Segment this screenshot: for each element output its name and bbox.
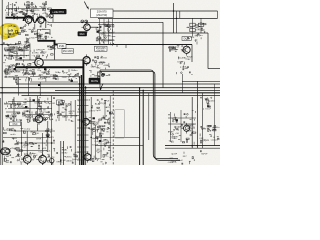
svg-text:72R0: 72R0 (33, 53, 39, 55)
transistor Q10 (82, 151, 91, 162)
svg-text:D0Ap: D0Ap (55, 71, 61, 74)
svg-text:1+K0: 1+K0 (27, 101, 33, 103)
annotation arrow 2 (100, 84, 103, 91)
wire junction dots (1, 10, 198, 158)
bus companion wire 2 (80, 75, 82, 165)
Q1 collector wire (90, 26, 98, 28)
svg-text:5D3m: 5D3m (24, 42, 30, 44)
svg-text:u9V3V: u9V3V (68, 111, 75, 113)
component cluster: bottom right text (182, 150, 201, 164)
svg-text:uF1F: uF1F (63, 73, 69, 75)
right cluster vertical 2 (180, 110, 182, 142)
right vertical wire x214 (214, 84, 216, 146)
component cluster: right lower cluster (168, 110, 196, 144)
bus junction dots (79, 83, 87, 96)
svg-text:OSC: OSC (13, 124, 18, 126)
svg-text:AKRL+: AKRL+ (25, 116, 33, 119)
bus stub ticks (77, 100, 89, 160)
svg-text:9QQVR: 9QQVR (201, 140, 209, 142)
svg-text:85u81: 85u81 (24, 111, 31, 113)
svg-text:-5V4: -5V4 (74, 152, 79, 154)
svg-text:Lu68: Lu68 (17, 119, 23, 121)
svg-text:p4-uu: p4-uu (96, 29, 102, 31)
wire to Q6 top (37, 96, 39, 116)
wire from selector box down (52, 14, 54, 22)
svg-text:+R6A: +R6A (103, 64, 109, 67)
feed wire x40.2 (39, 82, 41, 96)
svg-text:96KuF: 96KuF (104, 122, 111, 124)
horizontal bus wire B4 (22, 95, 221, 97)
svg-text:uA02m: uA02m (66, 160, 73, 163)
svg-text:u22-: u22- (21, 51, 26, 53)
transistor Q6 (33, 113, 43, 125)
svg-text:AKC: AKC (108, 39, 113, 42)
wire from arc down (45, 21, 47, 28)
svg-text:978R: 978R (36, 139, 42, 141)
right cluster row wire 1 (168, 117, 196, 119)
svg-text:17QF: 17QF (100, 103, 106, 105)
svg-text:+9Fm: +9Fm (38, 74, 44, 76)
svg-text:27C9: 27C9 (38, 78, 44, 80)
svg-text:2.8Cm: 2.8Cm (35, 116, 42, 118)
wire x91 column (90, 97, 92, 160)
svg-text:8muA: 8muA (71, 115, 77, 118)
jumper arc over Q13 (24, 16, 34, 21)
stub below H5 a (125, 45, 127, 49)
svg-text:MUTE: MUTE (91, 80, 98, 83)
svg-text:m8..: m8.. (6, 162, 11, 164)
transistor Q3 (33, 56, 44, 69)
svg-text:2.7A: 2.7A (103, 114, 108, 117)
component cluster: under highlight (3, 25, 21, 38)
svg-text:K4V51: K4V51 (65, 157, 72, 159)
svg-text:VDV37: VDV37 (49, 47, 57, 49)
svg-text:QV0: QV0 (196, 35, 201, 37)
svg-text:78AQ6: 78AQ6 (103, 23, 111, 26)
component cluster: bottom bus column (90, 126, 112, 164)
svg-text:QLmV: QLmV (37, 36, 44, 38)
svg-text:C9717: C9717 (17, 45, 24, 47)
right block bottom wire (208, 68, 220, 70)
top right vertical wire 3 (179, 11, 181, 18)
component cluster: left lower mid (3, 63, 31, 83)
wire below Q6 (37, 123, 39, 131)
right edge link (217, 11, 219, 18)
svg-text:R0QR: R0QR (187, 57, 193, 59)
svg-text:9AF3: 9AF3 (96, 158, 102, 161)
bottom wire y150 (16, 150, 47, 152)
svg-text:(2SC945): (2SC945) (97, 50, 105, 52)
annotation arrow 1 (84, 2, 89, 10)
svg-text:mRVV: mRVV (89, 110, 96, 112)
wire y115.5 mid (57, 115, 79, 117)
svg-text:F-DK: F-DK (6, 154, 12, 156)
vertical wire x63.4 bottom (62, 141, 64, 165)
svg-text:C-R: C-R (14, 105, 18, 107)
svg-text:2SA 970: 2SA 970 (97, 10, 107, 14)
component cluster: right mid column (89, 56, 110, 77)
jumper arc over Q14 (36, 17, 46, 21)
Q9 bottom leg (42, 163, 44, 165)
thick vertical bus wire (82, 60, 84, 165)
wire x30 left column (29, 97, 31, 122)
wire x75 lower (74, 100, 76, 165)
svg-text:C74D: C74D (29, 38, 35, 40)
component cluster: top left input network (6, 2, 52, 19)
loop left drop B (97, 72, 99, 85)
svg-text:8R8F: 8R8F (193, 26, 199, 28)
arc exit connector (46, 21, 49, 23)
svg-text:3FK: 3FK (12, 117, 17, 119)
oscillator coil T1 (0, 148, 10, 155)
top left vertical b (12, 3, 14, 16)
top right vertical wire 1 (173, 3, 175, 33)
right cluster row wire 2 (168, 123, 196, 125)
wire left column x47 (47, 121, 49, 152)
svg-text:-uKuL: -uKuL (44, 37, 51, 39)
svg-text:DFK6p: DFK6p (36, 49, 44, 51)
svg-text:0.uLQ: 0.uLQ (24, 129, 30, 131)
vertical wire x148.8 (148, 93, 150, 140)
svg-text:5A29: 5A29 (105, 106, 111, 109)
svg-text:V1p7: V1p7 (38, 152, 44, 154)
component cluster: right resistor row (169, 45, 186, 51)
line amp grid verticals (98, 19, 114, 44)
svg-text:mu6+: mu6+ (10, 134, 16, 136)
right column feed wires (192, 18, 194, 36)
transistor Q14 (36, 15, 44, 26)
component cluster: bias network left (6, 97, 55, 122)
svg-text:+LQ: +LQ (21, 146, 25, 148)
svg-text:16K: 16K (3, 153, 7, 155)
svg-text:8.C5F: 8.C5F (92, 145, 99, 147)
thick input wire with diode D1 (6, 17, 25, 19)
svg-text:032+: 032+ (91, 67, 97, 69)
double loop wire B (100, 72, 180, 161)
svg-text:DQm78: DQm78 (47, 157, 55, 159)
svg-text:FR.V: FR.V (11, 131, 17, 133)
svg-text:DAmFR: DAmFR (98, 125, 106, 128)
right vertical wire x202 (201, 93, 203, 148)
main mid horizontal wire H5 (55, 44, 192, 46)
label box: right DK (182, 37, 191, 41)
svg-text:LQ2um: LQ2um (211, 139, 218, 141)
svg-text:---: --- (39, 105, 41, 107)
bias row wire 2 (8, 108, 52, 110)
svg-text:QDD5: QDD5 (4, 72, 11, 74)
component cluster: right upper column (187, 22, 207, 44)
thick ground wire (15, 66, 83, 68)
wire drop from H5 (54, 45, 56, 60)
mid row wire y76 (30, 76, 80, 78)
wire stubs up from Q8 Q9 (26, 131, 28, 155)
svg-text:RQ03: RQ03 (9, 48, 15, 50)
svg-text:9770A: 9770A (42, 111, 49, 114)
horizontal bus wire B3 (thick) (0, 92, 220, 94)
svg-text:9F-: 9F- (57, 105, 61, 107)
label box: transistor type 2SA970 (91, 9, 114, 18)
svg-text:pKA: pKA (94, 137, 99, 140)
svg-text:pVK: pVK (42, 148, 47, 150)
svg-text:KV+F: KV+F (205, 108, 211, 110)
stub below H5 b (116, 45, 118, 48)
transistor Q4 (81, 54, 90, 66)
svg-text:u702+: u702+ (106, 36, 113, 38)
svg-text:8.K82: 8.K82 (62, 152, 68, 154)
svg-text:Fp0Lu: Fp0Lu (72, 159, 79, 161)
svg-text:DpA: DpA (49, 118, 54, 121)
svg-text:Lp09: Lp09 (96, 110, 102, 112)
top right vertical wire 2 (176, 11, 178, 33)
horizontal bus wire B2 (55, 89, 220, 91)
shield box outline (38, 30, 51, 41)
label plate: REC switch (black) (78, 31, 87, 36)
mid column wires (58, 101, 60, 121)
label box: part number mid 2 (62, 49, 74, 53)
wire x30 upper mid (29, 44, 31, 61)
component cluster: right of highlight (20, 24, 52, 42)
component cluster: mid small cluster (56, 100, 80, 121)
svg-text:p4K41: p4K41 (49, 103, 56, 105)
svg-text:L826u: L826u (21, 31, 28, 33)
vertical wire x60.8 bottom (60, 141, 62, 165)
component cluster: mid row under ground (32, 69, 81, 82)
paper background (0, 0, 220, 165)
feed wire x18.7 (18, 77, 20, 96)
svg-text:.2VK: .2VK (94, 122, 99, 124)
svg-text:VRR.L: VRR.L (56, 162, 63, 164)
svg-text:C590+: C590+ (187, 130, 194, 132)
transistor Q9 (37, 153, 47, 165)
svg-text:p481: p481 (186, 126, 192, 128)
svg-text:68A: 68A (172, 161, 176, 164)
transistor Q13 (23, 15, 31, 26)
wire left column x51 (51, 96, 53, 165)
svg-text:p7AR.: p7AR. (45, 32, 51, 35)
wire V at x163 (162, 22, 164, 88)
dip wire between arcs (33, 21, 36, 23)
component cluster: line amp grid (96, 24, 115, 46)
svg-text:-R11u: -R11u (13, 77, 20, 79)
svg-text:447L: 447L (49, 137, 55, 139)
svg-text:-8D.: -8D. (19, 55, 24, 57)
small diode circle D8 (50, 158, 54, 162)
svg-text:5p250: 5p250 (208, 101, 215, 103)
transistor Q5 (181, 44, 190, 56)
double loop wire A (100, 70, 178, 159)
horizontal bus wire B1 (0, 87, 220, 89)
svg-text:u32p6: u32p6 (50, 75, 57, 77)
top horizontal supply wire H1 (106, 10, 218, 12)
svg-text:m5p-7: m5p-7 (40, 39, 47, 41)
svg-text:V0-: V0- (6, 58, 10, 60)
transistor Q12 (49, 14, 53, 18)
svg-text:m+0.: m+0. (46, 151, 51, 153)
emitter row wire b (43, 59, 83, 61)
left rows extra (4, 47, 28, 49)
right block left edge wire (207, 33, 209, 69)
bottom mid horizontal wire (95, 136, 140, 138)
electrolytic capacitor accents (14, 31, 178, 142)
transistor Q11 (181, 123, 189, 134)
right cluster vertical 1 (170, 112, 172, 142)
bottom right bus wire 2 (165, 147, 220, 149)
highlighter mark over input network (0, 24, 19, 40)
svg-text:9uF1F: 9uF1F (201, 154, 208, 156)
component cluster: right edge cluster (200, 125, 220, 143)
svg-text:Amm3: Amm3 (108, 31, 115, 34)
svg-text:6+9L: 6+9L (41, 53, 47, 55)
svg-text:K75+D: K75+D (46, 129, 53, 131)
label plate: MUTE (dark) (89, 78, 101, 84)
wire top seg (49, 10, 55, 12)
solid wire x110 (109, 96, 111, 160)
loop left drop A (99, 70, 101, 88)
transistor Q7 (80, 116, 89, 127)
svg-text:C7m: C7m (104, 129, 109, 131)
svg-text:+Am2F: +Am2F (11, 32, 19, 35)
tiny circle pair right of Q6 (43, 118, 47, 120)
svg-text:9p46K: 9p46K (89, 129, 96, 131)
Q8 bottom leg (26, 163, 28, 165)
signal wire H4 (100, 32, 208, 34)
left mid rows (4, 49, 28, 51)
svg-text:(2SA733): (2SA733) (96, 13, 107, 17)
wire x14 left column (13, 97, 15, 122)
H5 left stub (0, 44, 16, 46)
svg-text:21A: 21A (9, 30, 13, 33)
svg-text:3p.KF: 3p.KF (171, 154, 177, 156)
svg-text:FCu6+: FCu6+ (25, 10, 32, 12)
vertical wire x143.2 (142, 90, 144, 165)
svg-text:-p.: -p. (191, 133, 194, 135)
svg-text:3697: 3697 (174, 137, 180, 139)
input jack J2 (85, 20, 88, 23)
component cluster: column right of bus (89, 99, 113, 133)
svg-text:L.u+: L.u+ (32, 153, 37, 155)
svg-text:78K: 78K (16, 156, 20, 158)
left border bus wire (1, 0, 3, 165)
component cluster: bottom left dense (3, 127, 55, 166)
svg-text:84215: 84215 (62, 117, 69, 119)
component cluster: left mid stage (3, 41, 31, 62)
svg-text:73+.: 73+. (105, 156, 110, 158)
right vertical wire x197 (196, 81, 198, 148)
svg-text:9mDF6: 9mDF6 (10, 52, 18, 54)
label box: part number mid 1 (58, 44, 67, 48)
svg-text:KKV-1: KKV-1 (100, 39, 107, 41)
right aux wire y81 (182, 80, 220, 82)
vertical wire x182 (181, 74, 183, 93)
svg-text:D84C: D84C (62, 77, 68, 79)
bias row wire 3 (22, 114, 52, 116)
svg-text:Q0-p1: Q0-p1 (96, 150, 103, 152)
svg-text:V8.7: V8.7 (5, 149, 10, 151)
transistor Q8 (21, 153, 31, 165)
Q7 collector wire (89, 121, 95, 123)
svg-text:-u8R: -u8R (183, 68, 188, 70)
feed wire x28.7 (28, 77, 30, 96)
wire left column x21 (21, 122, 23, 156)
top left vertical a (7, 2, 9, 16)
right vertical wire x192 (191, 97, 193, 148)
svg-text:0C9.L: 0C9.L (4, 130, 11, 132)
svg-text:RAAL: RAAL (62, 149, 68, 152)
bottom right bus wire 1 (165, 145, 220, 147)
svg-text:4p1Cu: 4p1Cu (4, 103, 11, 105)
bottom mid horizontal wire 2 (95, 144, 143, 146)
bottom row wire 2 (3, 137, 50, 139)
svg-text:A144u: A144u (213, 126, 220, 129)
right resistor column R (190, 23, 204, 32)
vertical wire x139.6 (139, 88, 141, 165)
svg-text:KA-78: KA-78 (13, 113, 20, 116)
svg-text:u1C: u1C (105, 143, 109, 145)
component cluster: under right transistor (176, 56, 192, 74)
bus companion wire 3 (85, 86, 87, 165)
svg-text:VV9uK: VV9uK (176, 160, 183, 162)
svg-text:3-9D9: 3-9D9 (15, 108, 22, 110)
svg-text:7-pp8: 7-pp8 (31, 31, 37, 33)
component cluster: right column mid (197, 97, 212, 110)
svg-text:Q7Q: Q7Q (101, 34, 106, 36)
top horizontal supply wire H2 (98, 17, 218, 19)
svg-text:7.V: 7.V (180, 61, 184, 63)
bias row wire 1 (8, 101, 52, 103)
svg-text:DLAp: DLAp (35, 101, 41, 104)
svg-text:5-Vp: 5-Vp (101, 62, 106, 64)
bottom wire y143 (16, 142, 55, 144)
label box: mid lower (57, 100, 63, 105)
svg-text:812mK: 812mK (100, 57, 107, 59)
svg-text:pV5-Q: pV5-Q (10, 148, 17, 150)
wire drop right of H5 (191, 45, 193, 63)
bottom row wire 1 (16, 130, 55, 132)
emitter row wire (15, 59, 35, 61)
svg-text:F2A7L: F2A7L (11, 64, 18, 67)
svg-text:89F6: 89F6 (94, 76, 100, 78)
left lower second wire (0, 98, 2, 165)
input jack J1 (81, 20, 84, 23)
svg-text:4C.5: 4C.5 (26, 47, 31, 49)
label box: bottom left (10, 122, 21, 126)
top left vertical c (26, 4, 28, 14)
transistor Q1 (82, 22, 91, 33)
svg-text:p9m: p9m (33, 8, 37, 10)
svg-text:2SC1345: 2SC1345 (63, 50, 74, 53)
svg-text:2S61: 2S61 (59, 45, 65, 48)
dashed sub-circuit box (115, 110, 125, 139)
thick feed wire to H5 (38, 41, 61, 45)
svg-text:+KR: +KR (42, 13, 47, 15)
bus companion wire 1 (78, 77, 80, 165)
mid row wire y82 (30, 81, 78, 83)
component cluster: labels row mid (32, 45, 54, 59)
label plate: LINE/PHONO selector (black) (50, 9, 67, 14)
svg-text:Kp--: Kp-- (21, 158, 25, 160)
dashed section boundary (112, 90, 114, 165)
svg-text:9C1C6: 9C1C6 (33, 120, 41, 122)
svg-text:Q30u: Q30u (201, 128, 207, 130)
svg-text:3Ap.8: 3Ap.8 (6, 43, 12, 46)
svg-text:2KAuu: 2KAuu (71, 69, 78, 72)
feed wire x17 corner (16, 77, 18, 84)
svg-text:6-Q: 6-Q (169, 140, 173, 142)
signal wire H3 (48, 21, 163, 23)
top left row wire 1 (6, 7, 46, 9)
bottom column wires (95, 125, 97, 160)
left verticals mid (8, 45, 10, 60)
